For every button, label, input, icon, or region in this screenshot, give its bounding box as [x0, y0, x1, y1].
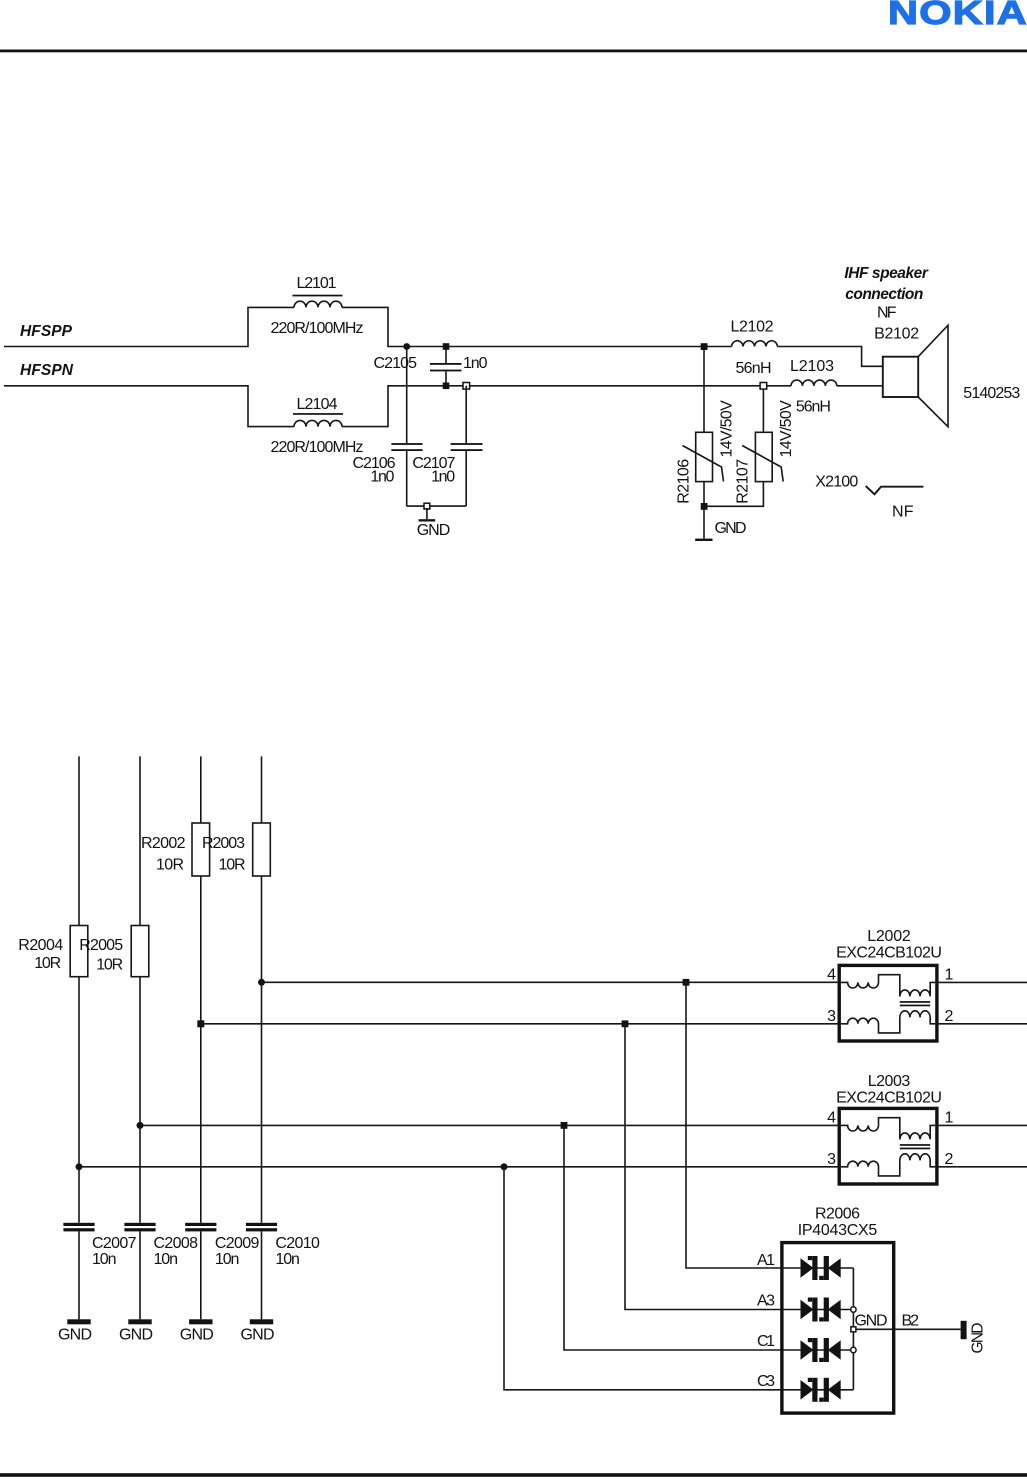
svg-text:C2010: C2010: [275, 1235, 320, 1252]
diode pair A1: [801, 1256, 841, 1280]
svg-text:GND: GND: [855, 1312, 888, 1329]
svg-text:5140253: 5140253: [963, 385, 1020, 402]
node junction dot: [76, 1163, 83, 1170]
svg-text:EXC24CB102U: EXC24CB102U: [836, 1089, 942, 1106]
svg-text:10R: 10R: [96, 957, 123, 974]
svg-text:X2100: X2100: [815, 473, 858, 490]
varistor R2107: [762, 389, 764, 432]
svg-text:R2106: R2106: [675, 459, 692, 504]
svg-text:4: 4: [827, 1110, 836, 1127]
svg-text:GND: GND: [417, 522, 451, 539]
inductor L2104: [294, 420, 342, 426]
svg-text:3: 3: [827, 1008, 836, 1025]
svg-text:R2003: R2003: [202, 835, 245, 852]
bottom rule: [0, 1473, 1027, 1477]
svg-text:1n0: 1n0: [463, 355, 488, 372]
wire to L2003 pin 4: [140, 1124, 841, 1126]
svg-text:NOKIA: NOKIA: [888, 0, 1027, 31]
node junction square: [443, 383, 450, 390]
svg-text:B2102: B2102: [874, 325, 919, 342]
node junction square: [622, 1020, 629, 1027]
svg-text:R2107: R2107: [734, 459, 751, 504]
svg-text:L2103: L2103: [790, 358, 834, 375]
capacitor C2007: [63, 1223, 94, 1226]
svg-text:R2005: R2005: [79, 937, 123, 954]
node junction square: [197, 1020, 204, 1027]
capacitor C2008: [124, 1223, 155, 1226]
node junction square: [701, 343, 708, 350]
wire vertical rail 4 (x=261.5): [261, 756, 263, 1222]
svg-text:10n: 10n: [215, 1251, 240, 1268]
wire to L2002 pin 4: [262, 981, 842, 983]
svg-text:NF: NF: [877, 304, 897, 321]
svg-text:220R/100MHz: 220R/100MHz: [271, 439, 364, 456]
ground GND below C2008: [128, 1319, 151, 1324]
svg-text:C1: C1: [757, 1333, 775, 1350]
node junction dot: [501, 1163, 508, 1170]
svg-text:L2102: L2102: [731, 318, 774, 335]
svg-text:NF: NF: [892, 504, 914, 521]
svg-text:EXC24CB102U: EXC24CB102U: [836, 944, 942, 961]
capacitor C2106: [406, 347, 408, 444]
inductor L2101: [294, 301, 342, 307]
ground GND right bar: [961, 1321, 967, 1339]
wire A1 row inside box: [782, 1267, 854, 1269]
svg-text:4: 4: [827, 967, 836, 984]
node junction dot: [258, 979, 265, 986]
svg-text:C2008: C2008: [154, 1235, 199, 1252]
svg-text:GND: GND: [58, 1327, 92, 1344]
wire to L2002 pin 3: [201, 1023, 841, 1025]
resistor R2003: [253, 823, 271, 876]
wire from L2003 pin 2: [937, 1166, 1027, 1168]
svg-text:C2009: C2009: [215, 1235, 260, 1252]
ground GND below C2106/C2107: [426, 508, 428, 519]
svg-text:A1: A1: [757, 1252, 775, 1269]
svg-text:GND: GND: [119, 1327, 153, 1344]
wire from L2003 pin 1: [937, 1124, 1027, 1126]
node GND tap circle: [851, 1347, 856, 1352]
diode pair A3: [801, 1298, 841, 1322]
node junction square: [701, 503, 708, 510]
inductor L2102: [732, 341, 778, 347]
wire to R2006 pin A3: [625, 1024, 853, 1310]
node junction open square: [760, 383, 767, 390]
resistor R2005: [131, 926, 149, 977]
capacitor C2010: [246, 1223, 277, 1226]
node junction square: [561, 1122, 568, 1129]
wire internal GND bus: [852, 1268, 854, 1390]
wire: [342, 386, 791, 427]
svg-text:IHF speaker: IHF speaker: [844, 265, 928, 282]
svg-text:10R: 10R: [156, 857, 184, 874]
svg-text:56nH: 56nH: [736, 360, 772, 377]
svg-text:10R: 10R: [219, 857, 246, 874]
wire: [342, 307, 732, 346]
resistor R2004: [70, 926, 88, 977]
svg-text:2: 2: [945, 1151, 954, 1168]
svg-text:1: 1: [945, 1110, 954, 1127]
node junction square: [443, 343, 450, 350]
svg-text:10R: 10R: [34, 955, 61, 972]
node B2 tap square: [851, 1327, 856, 1332]
svg-text:HFSPP: HFSPP: [20, 323, 73, 340]
wire from L2002 pin 1: [937, 981, 1027, 983]
wire to L2003 pin 3: [79, 1166, 841, 1168]
wire: [777, 347, 882, 367]
svg-text:B2: B2: [902, 1312, 920, 1329]
ground GND below C2009: [189, 1319, 212, 1324]
svg-text:connection: connection: [845, 286, 923, 303]
svg-text:L2002: L2002: [867, 928, 911, 945]
node GND tap circle: [851, 1307, 856, 1312]
top rule: [0, 50, 1027, 53]
svg-text:L2003: L2003: [868, 1073, 911, 1090]
node junction open square: [463, 383, 470, 390]
wire vertical rail 3 (x=200.8): [200, 756, 202, 1222]
wire to R2006 pin C3: [504, 1167, 853, 1390]
svg-text:3: 3: [827, 1151, 836, 1168]
svg-text:C2007: C2007: [92, 1235, 137, 1252]
resistor R2002: [192, 823, 210, 876]
svg-text:L2104: L2104: [297, 396, 338, 413]
diode pair C3: [801, 1378, 841, 1402]
svg-text:GND: GND: [180, 1327, 214, 1344]
svg-text:HFSPN: HFSPN: [20, 362, 74, 379]
wire A3 row inside box: [782, 1309, 854, 1311]
svg-text:1: 1: [945, 967, 954, 984]
wire HFSPN main: [4, 386, 294, 427]
svg-text:10n: 10n: [154, 1251, 179, 1268]
wire vertical rail 1 (x=79): [78, 756, 80, 1222]
wire from L2002 pin 2: [937, 1023, 1027, 1025]
ground GND below R2106: [703, 506, 705, 538]
svg-text:R2006: R2006: [815, 1205, 860, 1222]
wire to R2006 pin A1: [686, 982, 853, 1268]
wire vertical rail 2 (x=140): [139, 756, 141, 1222]
svg-text:L2101: L2101: [297, 275, 337, 292]
svg-text:10n: 10n: [92, 1251, 117, 1268]
wire HFSPP main: [4, 307, 294, 346]
node junction open square: [424, 503, 430, 509]
diode pair C1: [801, 1338, 841, 1362]
node junction dot: [137, 1122, 144, 1129]
ground GND below C2007: [67, 1319, 90, 1324]
svg-text:GND: GND: [715, 520, 747, 537]
capacitor C2105: [445, 347, 447, 364]
wire C1 row inside box: [782, 1349, 854, 1351]
node junction dot: [403, 343, 410, 350]
svg-text:14V/50V: 14V/50V: [719, 400, 736, 458]
svg-text:C2105: C2105: [374, 355, 418, 372]
svg-text:IP4043CX5: IP4043CX5: [798, 1222, 878, 1239]
ground GND below C2010: [250, 1319, 273, 1324]
inductor L2103: [791, 380, 837, 386]
svg-text:10n: 10n: [275, 1251, 300, 1268]
svg-text:R2002: R2002: [141, 835, 186, 852]
svg-text:2: 2: [945, 1008, 954, 1025]
svg-text:A3: A3: [757, 1293, 775, 1310]
svg-text:220R/100MHz: 220R/100MHz: [271, 320, 364, 337]
wire C3 row inside box: [782, 1389, 854, 1391]
svg-text:14V/50V: 14V/50V: [778, 400, 795, 458]
capacitor C2107: [465, 386, 467, 443]
svg-text:GND: GND: [970, 1323, 987, 1354]
svg-text:1n0: 1n0: [370, 469, 394, 486]
wire B2: [853, 1328, 960, 1330]
svg-text:R2004: R2004: [18, 937, 63, 954]
svg-text:C3: C3: [757, 1373, 775, 1390]
capacitor C2009: [185, 1223, 216, 1226]
varistor R2106: [703, 350, 705, 432]
wire: [407, 505, 467, 507]
wire to R2006 pin C1: [564, 1125, 853, 1350]
wire: [837, 385, 883, 387]
svg-text:56nH: 56nH: [796, 399, 831, 416]
svg-text:GND: GND: [241, 1327, 275, 1344]
svg-text:1n0: 1n0: [431, 469, 455, 486]
node junction square: [683, 979, 690, 986]
